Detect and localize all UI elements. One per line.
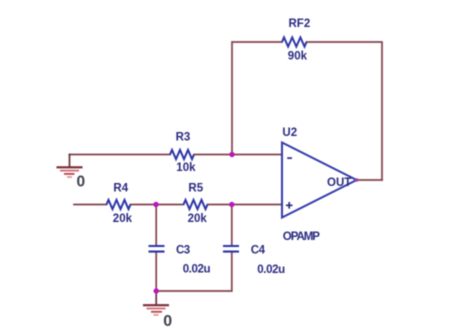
svg-text:OPAMP: OPAMP <box>283 231 320 243</box>
svg-text:0: 0 <box>77 173 86 190</box>
svg-text:U2: U2 <box>282 127 297 139</box>
svg-text:C3: C3 <box>176 244 190 256</box>
svg-text:0.02u: 0.02u <box>183 264 211 276</box>
svg-text:20k: 20k <box>188 213 208 225</box>
svg-text:OUT: OUT <box>327 177 351 189</box>
svg-text:R4: R4 <box>113 183 128 195</box>
svg-text:R5: R5 <box>188 182 203 194</box>
svg-text:10k: 10k <box>176 162 196 174</box>
svg-text:20k: 20k <box>113 213 133 225</box>
svg-text:C4: C4 <box>251 244 266 256</box>
svg-text:0.02u: 0.02u <box>257 264 285 276</box>
svg-text:RF2: RF2 <box>289 18 311 30</box>
svg-text:0: 0 <box>163 313 172 330</box>
svg-text:90k: 90k <box>288 51 308 63</box>
svg-text:R3: R3 <box>176 131 191 143</box>
